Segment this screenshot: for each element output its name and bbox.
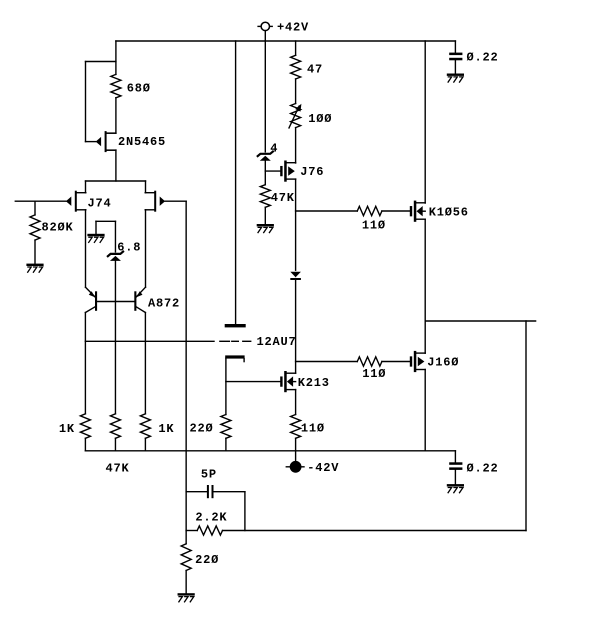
- svg-text:82ØK: 82ØK: [42, 220, 74, 234]
- svg-text:A872: A872: [148, 297, 180, 311]
- svg-text:11Ø: 11Ø: [362, 367, 386, 381]
- svg-text:22Ø: 22Ø: [190, 422, 214, 436]
- svg-text:12AU7: 12AU7: [257, 335, 297, 349]
- svg-text:11Ø: 11Ø: [301, 422, 325, 436]
- svg-text:-42V: -42V: [307, 461, 339, 475]
- svg-text:4: 4: [270, 141, 278, 155]
- svg-text:Ø.22: Ø.22: [467, 461, 499, 475]
- svg-text:J76: J76: [300, 165, 324, 179]
- svg-text:1K: 1K: [158, 422, 174, 436]
- svg-text:K1Ø56: K1Ø56: [429, 206, 469, 220]
- svg-text:47K: 47K: [271, 191, 295, 205]
- svg-text:2.2K: 2.2K: [195, 511, 227, 525]
- svg-text:+42V: +42V: [277, 21, 309, 35]
- svg-text:6.8: 6.8: [117, 241, 141, 255]
- svg-text:5P: 5P: [201, 467, 217, 481]
- svg-text:J16Ø: J16Ø: [427, 356, 459, 370]
- svg-text:68Ø: 68Ø: [127, 82, 151, 96]
- svg-text:J74: J74: [88, 196, 112, 210]
- svg-text:2N5465: 2N5465: [118, 135, 166, 149]
- svg-text:47K: 47K: [106, 461, 130, 475]
- svg-text:11Ø: 11Ø: [362, 219, 386, 233]
- svg-text:47: 47: [307, 63, 323, 77]
- svg-text:K213: K213: [298, 376, 330, 390]
- svg-text:Ø.22: Ø.22: [467, 50, 499, 64]
- svg-text:1K: 1K: [59, 422, 75, 436]
- svg-text:1ØØ: 1ØØ: [308, 112, 332, 126]
- svg-text:22Ø: 22Ø: [195, 553, 219, 567]
